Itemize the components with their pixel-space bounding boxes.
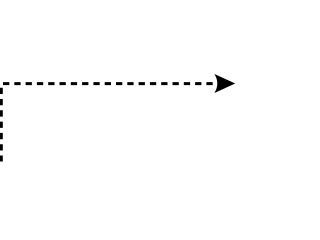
arrowhead (214, 74, 235, 93)
wire: horizontal dashed segment (3, 82, 213, 85)
wire: vertical dashed segment (0, 88, 3, 162)
